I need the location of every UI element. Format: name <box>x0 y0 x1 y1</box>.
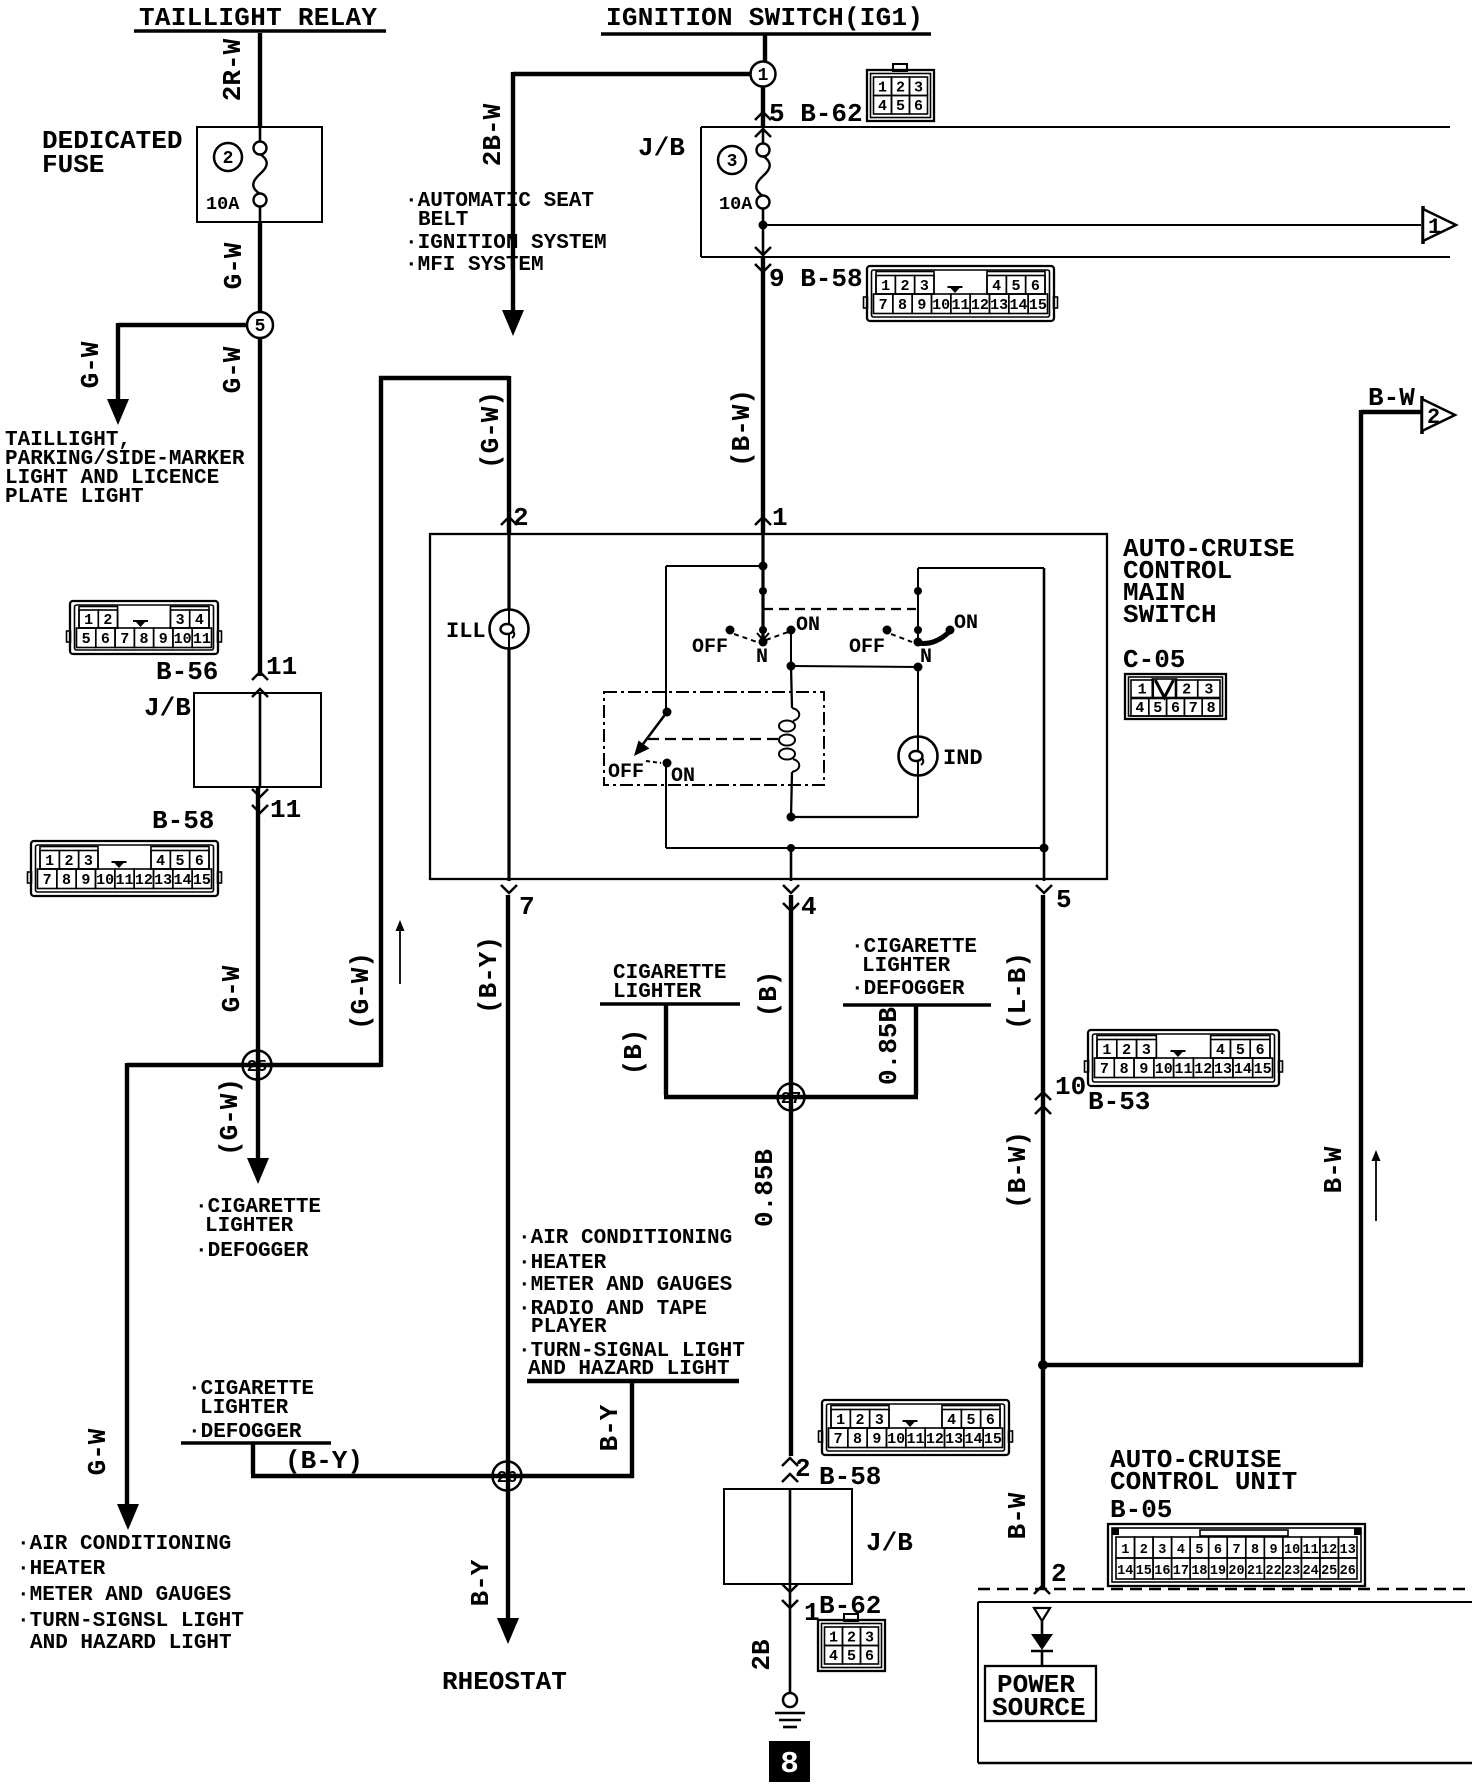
svg-text:12: 12 <box>135 872 153 889</box>
svg-text:8: 8 <box>780 1747 799 1782</box>
svg-text:ON: ON <box>671 765 695 788</box>
left switch ON contact <box>787 626 796 635</box>
left switch dashed OFF arm <box>734 634 757 642</box>
svg-text:3: 3 <box>84 853 93 870</box>
svg-text:13: 13 <box>1214 1061 1232 1078</box>
svg-text:SWITCH: SWITCH <box>1123 600 1217 630</box>
svg-text:5: 5 <box>1195 1543 1203 1558</box>
wire pin5 inner <box>1043 568 1046 848</box>
svg-text:10A: 10A <box>206 194 240 215</box>
svg-text:11: 11 <box>266 652 297 682</box>
svg-text:5: 5 <box>847 1648 856 1665</box>
svg-text:10: 10 <box>1155 1061 1173 1078</box>
svg-text:9: 9 <box>81 872 90 889</box>
svg-text:B-58: B-58 <box>152 806 214 836</box>
svg-text:14: 14 <box>964 1431 982 1448</box>
wire coil-top to IND branch <box>791 666 918 667</box>
svg-text:G-W: G-W <box>217 965 247 1012</box>
svg-text:N: N <box>756 646 768 669</box>
svg-text:15: 15 <box>984 1431 1002 1448</box>
lamp ILL <box>490 610 529 649</box>
svg-text:(B-W): (B-W) <box>727 389 757 467</box>
arrow to taillight loads <box>107 399 129 425</box>
svg-text:9: 9 <box>1139 1061 1148 1078</box>
svg-text:(L-B): (L-B) <box>1003 952 1033 1030</box>
svg-text:1: 1 <box>1102 1042 1111 1059</box>
svg-text:7: 7 <box>879 297 888 314</box>
lamp IND wire upper <box>917 667 919 737</box>
svg-text:17: 17 <box>1173 1564 1189 1579</box>
switch feed wire <box>761 534 764 640</box>
svg-text:8: 8 <box>1207 700 1216 717</box>
svg-text:10: 10 <box>174 631 192 648</box>
svg-text:18: 18 <box>1191 1564 1207 1579</box>
svg-text:B-56: B-56 <box>156 657 218 687</box>
svg-text:8: 8 <box>1251 1543 1259 1558</box>
svg-text:B-Y: B-Y <box>595 1404 625 1451</box>
svg-text:6: 6 <box>865 1648 874 1665</box>
junction 5 <box>247 312 273 338</box>
chevrons out of top J/B <box>755 247 771 255</box>
svg-text:5: 5 <box>966 1412 975 1429</box>
ground symbol <box>783 1693 797 1707</box>
svg-text:13: 13 <box>945 1431 963 1448</box>
direction arrow up right <box>1375 1160 1377 1221</box>
svg-text:(B-Y): (B-Y) <box>474 936 504 1014</box>
svg-text:CONTROL UNIT: CONTROL UNIT <box>1110 1467 1297 1497</box>
svg-text:4: 4 <box>801 892 817 922</box>
svg-text:BELT: BELT <box>418 209 468 232</box>
svg-text:RHEOSTAT: RHEOSTAT <box>442 1667 567 1697</box>
svg-text:5: 5 <box>1236 1042 1245 1059</box>
connector B-58 icon left <box>28 841 222 896</box>
svg-text:IND: IND <box>943 746 983 771</box>
svg-text:2: 2 <box>1182 682 1191 699</box>
svg-text:11: 11 <box>270 795 301 825</box>
chevrons out of bottom J/B <box>782 1584 798 1592</box>
svg-text:2: 2 <box>847 1630 856 1647</box>
svg-text:·METER AND GAUGES: ·METER AND GAUGES <box>17 1584 231 1607</box>
svg-text:6: 6 <box>914 98 923 115</box>
svg-text:6: 6 <box>986 1412 995 1429</box>
svg-text:5: 5 <box>175 853 184 870</box>
wire (L-B) from pin 5 <box>1041 895 1045 1588</box>
svg-text:15: 15 <box>193 872 211 889</box>
svg-text:J/B: J/B <box>638 133 685 163</box>
svg-text:5: 5 <box>896 98 905 115</box>
lamp ILL wire lower <box>507 648 510 881</box>
lamp IND wire lower <box>917 775 919 817</box>
wire IND bottom link <box>791 816 918 818</box>
svg-text:14: 14 <box>1009 297 1027 314</box>
svg-text:B-W: B-W <box>1319 1146 1349 1193</box>
pin 7 exit <box>501 885 517 893</box>
svg-text:13: 13 <box>1340 1543 1356 1558</box>
page connector arrow 1 <box>1421 206 1425 244</box>
svg-text:1: 1 <box>772 503 788 533</box>
svg-text:(G-W): (G-W) <box>476 391 506 469</box>
connector B-58 icon middle <box>819 1400 1013 1455</box>
svg-text:11: 11 <box>1303 1543 1319 1558</box>
lamp IND <box>899 737 938 776</box>
connector B-56 icon <box>67 601 222 654</box>
left switch dashed ON arm <box>766 632 788 640</box>
control unit dashed boundary <box>978 1588 1472 1591</box>
svg-text:15: 15 <box>1029 297 1047 314</box>
svg-text:2: 2 <box>900 278 909 295</box>
arrow to rheostat <box>497 1618 519 1644</box>
arrow 2B-W to systems <box>502 310 524 336</box>
svg-text:11: 11 <box>951 297 969 314</box>
relay armature <box>643 712 667 744</box>
svg-text:4: 4 <box>829 1648 838 1665</box>
svg-text:ON: ON <box>796 614 820 637</box>
svg-text:·DEFOGGER: ·DEFOGGER <box>188 1421 302 1444</box>
svg-text:AND HAZARD LIGHT: AND HAZARD LIGHT <box>528 1358 730 1381</box>
svg-text:G-W: G-W <box>219 242 249 289</box>
wire B-Y from pin 7 <box>506 895 510 1618</box>
svg-text:PLATE LIGHT: PLATE LIGHT <box>5 486 144 509</box>
svg-text:1: 1 <box>878 80 887 97</box>
svg-text:13: 13 <box>990 297 1008 314</box>
svg-text:5: 5 <box>1011 278 1020 295</box>
svg-text:7: 7 <box>120 631 129 648</box>
wire to diode <box>1041 1621 1044 1634</box>
power source box outline <box>978 1601 1472 1603</box>
svg-text:6: 6 <box>1171 700 1180 717</box>
svg-text:11: 11 <box>115 872 133 889</box>
connector B-53 icon <box>1085 1030 1283 1086</box>
svg-text:6: 6 <box>101 631 110 648</box>
svg-text:1: 1 <box>829 1630 838 1647</box>
wire pin4 exit segment <box>790 848 793 881</box>
chevrons into left J/B <box>252 672 268 680</box>
svg-text:3: 3 <box>914 80 923 97</box>
svg-text:10: 10 <box>932 297 950 314</box>
svg-text:4: 4 <box>1216 1042 1225 1059</box>
lamp ILL wire upper <box>507 534 510 610</box>
wire ON contact down <box>790 630 792 666</box>
svg-text:·MFI SYSTEM: ·MFI SYSTEM <box>405 254 544 277</box>
svg-text:19: 19 <box>1210 1564 1226 1579</box>
svg-text:2: 2 <box>513 503 529 533</box>
connector B-58 icon top <box>864 266 1058 321</box>
svg-text:25: 25 <box>247 1058 267 1077</box>
svg-text:12: 12 <box>926 1431 944 1448</box>
svg-text:(B): (B) <box>619 1029 649 1076</box>
svg-text:2: 2 <box>855 1412 864 1429</box>
svg-text:14: 14 <box>173 872 191 889</box>
svg-text:9: 9 <box>917 297 926 314</box>
svg-text:IGNITION SWITCH(IG1): IGNITION SWITCH(IG1) <box>606 3 923 33</box>
relay coil <box>791 666 792 708</box>
svg-text:11: 11 <box>1174 1061 1192 1078</box>
svg-text:0.85B: 0.85B <box>874 1007 904 1085</box>
svg-text:2: 2 <box>1427 405 1440 430</box>
svg-text:7: 7 <box>1100 1061 1109 1078</box>
pin 5 exit chevron <box>1036 885 1052 893</box>
svg-text:2R-W: 2R-W <box>218 38 248 101</box>
junction 1 <box>751 62 776 87</box>
svg-text:1: 1 <box>84 612 93 629</box>
relay ON contact <box>663 759 672 768</box>
relay pivot <box>663 708 672 717</box>
svg-text:9: 9 <box>872 1431 881 1448</box>
svg-text:10A: 10A <box>719 194 753 215</box>
svg-text:24: 24 <box>1303 1564 1319 1579</box>
svg-text:14: 14 <box>1234 1061 1252 1078</box>
svg-text:LIGHTER: LIGHTER <box>613 981 702 1004</box>
svg-text:G-W: G-W <box>83 1428 113 1475</box>
svg-text:·AIR CONDITIONING: ·AIR CONDITIONING <box>17 1533 231 1556</box>
svg-text:7: 7 <box>1232 1543 1240 1558</box>
svg-text:2: 2 <box>795 1454 811 1484</box>
svg-text:TAILLIGHT RELAY: TAILLIGHT RELAY <box>139 3 377 33</box>
svg-text:4: 4 <box>947 1412 956 1429</box>
wire G-W below fuse <box>258 222 262 312</box>
svg-text:1: 1 <box>1121 1543 1129 1558</box>
right switch closed arm <box>918 631 950 644</box>
svg-text:4: 4 <box>156 853 165 870</box>
svg-text:5: 5 <box>255 317 266 337</box>
junction block J/B top box <box>701 126 1450 128</box>
svg-text:3: 3 <box>176 612 185 629</box>
chevrons at B-53 <box>1035 1092 1051 1100</box>
svg-text:6: 6 <box>1256 1042 1265 1059</box>
svg-text:LIGHTER: LIGHTER <box>862 955 951 978</box>
svg-text:LIGHTER: LIGHTER <box>205 1215 294 1238</box>
chevrons into bottom J/B <box>782 1458 798 1466</box>
mechanical link dashed top <box>763 608 916 610</box>
svg-text:26: 26 <box>1340 1564 1356 1579</box>
wire (B-Y) from defogger note <box>251 1443 255 1474</box>
svg-text:2: 2 <box>1051 1559 1067 1589</box>
right switch dashed OFF arm <box>891 634 912 642</box>
svg-text:2: 2 <box>64 853 73 870</box>
relay mech link dashed <box>648 738 779 740</box>
arrow (G-W) to cigarette lighter <box>247 1158 269 1184</box>
svg-text:20: 20 <box>1228 1564 1244 1579</box>
svg-text:2: 2 <box>103 612 112 629</box>
wire to page connector 1 <box>763 224 1421 226</box>
wire B from pin 4 <box>789 895 793 1456</box>
wire B-W horizontal link <box>1043 1363 1363 1367</box>
junction 25 <box>243 1051 272 1080</box>
svg-text:9: 9 <box>1270 1543 1278 1558</box>
svg-text:SOURCE: SOURCE <box>992 1693 1086 1723</box>
page connector arrow 2 <box>1420 396 1424 434</box>
svg-text:ILL: ILL <box>446 619 486 644</box>
wire (B) from note <box>664 1004 668 1095</box>
auto-cruise main switch box <box>430 534 1107 879</box>
connector B-05 icon <box>1108 1524 1365 1586</box>
svg-text:9 B-58: 9 B-58 <box>769 264 863 294</box>
arrow G-W to A/C loads <box>117 1504 139 1530</box>
svg-text:·DEFOGGER: ·DEFOGGER <box>851 978 965 1001</box>
diode D1 <box>1031 1634 1053 1650</box>
wire (G-W) into main switch <box>507 376 511 533</box>
svg-text:10: 10 <box>96 872 114 889</box>
junction dot coil top <box>787 662 796 671</box>
svg-text:7: 7 <box>519 892 535 922</box>
svg-text:(G-W): (G-W) <box>346 952 376 1030</box>
wire 0.85B from note <box>914 1005 918 1095</box>
svg-text:B-62: B-62 <box>819 1591 881 1621</box>
direction arrow up <box>399 930 401 984</box>
svg-text:1: 1 <box>758 66 769 86</box>
wire 2B-W branch <box>513 72 750 76</box>
svg-text:5: 5 <box>82 631 91 648</box>
svg-text:0.85B: 0.85B <box>750 1149 780 1227</box>
fuse number 2 circle <box>214 143 242 171</box>
svg-text:2: 2 <box>1122 1042 1131 1059</box>
wire branch left from junction 5 <box>118 323 247 327</box>
svg-text:1: 1 <box>1428 215 1441 240</box>
pin 4 exit chevrons <box>783 885 799 893</box>
svg-text:12: 12 <box>971 297 989 314</box>
svg-text:B-W: B-W <box>1368 383 1415 413</box>
svg-text:N: N <box>920 646 932 669</box>
svg-text:3: 3 <box>865 1630 874 1647</box>
junction block J/B bottom box <box>724 1489 852 1584</box>
junction block J/B left box <box>194 693 321 787</box>
svg-text:2: 2 <box>896 80 905 97</box>
svg-text:14: 14 <box>1117 1564 1133 1579</box>
svg-text:15: 15 <box>1254 1061 1272 1078</box>
svg-text:FUSE: FUSE <box>42 150 104 180</box>
svg-text:2B: 2B <box>747 1639 777 1671</box>
svg-text:PLAYER: PLAYER <box>531 1316 607 1339</box>
svg-text:11: 11 <box>193 631 211 648</box>
svg-text:4: 4 <box>195 612 204 629</box>
inner box bottom edge <box>666 847 1044 849</box>
chevrons out of left J/B <box>252 789 268 797</box>
svg-text:1: 1 <box>45 853 54 870</box>
svg-text:13: 13 <box>154 872 172 889</box>
svg-text:8: 8 <box>139 631 148 648</box>
svg-text:5: 5 <box>1153 700 1162 717</box>
fuse F2 10A symbol <box>259 127 262 142</box>
svg-text:3: 3 <box>920 278 929 295</box>
wire 2B to ground <box>789 1584 792 1693</box>
svg-text:·HEATER: ·HEATER <box>17 1558 106 1581</box>
svg-text:8: 8 <box>1120 1061 1129 1078</box>
svg-text:27: 27 <box>781 1090 801 1109</box>
svg-text:4: 4 <box>1135 700 1144 717</box>
svg-text:G-W: G-W <box>218 346 248 393</box>
svg-text:3: 3 <box>875 1412 884 1429</box>
junction 27 <box>778 1084 805 1111</box>
svg-text:11: 11 <box>906 1431 924 1448</box>
wire G-W junction5 to J/B <box>258 338 262 676</box>
connector B-62 icon top <box>867 64 934 121</box>
svg-text:12: 12 <box>1321 1543 1337 1558</box>
svg-text:B-W: B-W <box>1003 1492 1033 1539</box>
left switch OFF contact <box>726 626 735 635</box>
wire from ignition switch <box>763 33 767 62</box>
relay dashed to ON <box>646 761 661 763</box>
connector B-62 icon bottom <box>818 1614 885 1671</box>
svg-text:2: 2 <box>223 149 234 169</box>
svg-text:12: 12 <box>1194 1061 1212 1078</box>
svg-text:B-Y: B-Y <box>466 1559 496 1606</box>
svg-text:10: 10 <box>887 1431 905 1448</box>
svg-text:7: 7 <box>834 1431 843 1448</box>
wire through left J/B <box>259 693 262 787</box>
svg-text:3: 3 <box>1158 1543 1166 1558</box>
wire (B-W) to main switch <box>761 257 765 533</box>
junction 26 <box>493 1462 522 1491</box>
svg-text:2: 2 <box>1140 1543 1148 1558</box>
svg-text:·HEATER: ·HEATER <box>518 1252 607 1275</box>
svg-text:2B-W: 2B-W <box>478 103 508 166</box>
svg-text:(B): (B) <box>754 971 784 1018</box>
svg-text:10: 10 <box>1055 1072 1086 1102</box>
svg-text:6: 6 <box>195 853 204 870</box>
svg-text:(G-W): (G-W) <box>215 1078 245 1156</box>
svg-text:3: 3 <box>727 152 738 172</box>
svg-text:23: 23 <box>1284 1564 1300 1579</box>
page number 8 marker <box>769 1741 810 1782</box>
wire through bottom J/B <box>789 1489 792 1584</box>
wire G-W to junction 25 <box>256 787 260 1158</box>
entry chevron open triangle <box>1034 1608 1050 1621</box>
svg-text:J/B: J/B <box>866 1528 913 1558</box>
svg-text:·METER AND GAUGES: ·METER AND GAUGES <box>518 1274 732 1297</box>
wire B-Y from hazard note <box>630 1381 634 1478</box>
svg-text:·AIR CONDITIONING: ·AIR CONDITIONING <box>518 1227 732 1250</box>
svg-text:6: 6 <box>1214 1543 1222 1558</box>
right inner box top edge <box>918 567 1044 569</box>
junction dot fuse output <box>759 221 768 230</box>
svg-text:21: 21 <box>1247 1564 1263 1579</box>
svg-text:B-58: B-58 <box>819 1462 881 1492</box>
svg-text:LIGHTER: LIGHTER <box>200 1397 289 1420</box>
svg-text:9: 9 <box>159 631 168 648</box>
wire pin5 exit segment <box>1043 848 1046 881</box>
svg-text:6: 6 <box>1031 278 1040 295</box>
svg-text:C-05: C-05 <box>1123 645 1185 675</box>
svg-text:(B-Y): (B-Y) <box>285 1446 363 1476</box>
svg-text:26: 26 <box>497 1469 517 1488</box>
svg-text:16: 16 <box>1154 1564 1170 1579</box>
wire relay ON down <box>665 763 667 848</box>
svg-text:·TURN-SIGNSL LIGHT: ·TURN-SIGNSL LIGHT <box>17 1610 244 1633</box>
inner box top edge <box>666 565 763 567</box>
svg-text:4: 4 <box>878 98 887 115</box>
svg-text:OFF: OFF <box>692 636 728 659</box>
svg-text:J/B: J/B <box>144 693 191 723</box>
svg-text:5: 5 <box>1056 885 1072 915</box>
wire left from junction 25 <box>127 1063 381 1067</box>
chevrons into top J/B <box>755 112 771 120</box>
svg-text:4: 4 <box>1177 1543 1185 1558</box>
inner box left edge <box>665 566 667 712</box>
power source box <box>985 1666 1096 1721</box>
svg-text:·DEFOGGER: ·DEFOGGER <box>195 1240 309 1263</box>
svg-text:8: 8 <box>62 872 71 889</box>
svg-text:ON: ON <box>954 612 978 635</box>
svg-text:7: 7 <box>1189 700 1198 717</box>
wire diode to power source <box>1041 1651 1044 1666</box>
svg-text:1: 1 <box>881 278 890 295</box>
svg-text:OFF: OFF <box>608 761 644 784</box>
svg-text:·IGNITION SYSTEM: ·IGNITION SYSTEM <box>405 232 607 255</box>
svg-text:3: 3 <box>1204 682 1213 699</box>
svg-text:10: 10 <box>1284 1543 1300 1558</box>
right switch feed <box>917 568 919 642</box>
svg-text:1: 1 <box>836 1412 845 1429</box>
